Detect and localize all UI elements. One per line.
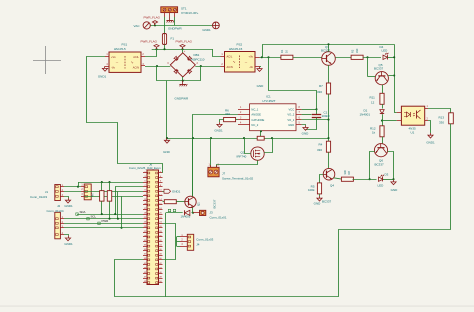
junction VO1 bbox=[327, 119, 329, 121]
pins PS1 bbox=[141, 56, 145, 58]
ground GND under D3 bbox=[393, 180, 395, 182]
diode D1 1N4001 bbox=[380, 110, 384, 114]
junction bridge bottom bbox=[182, 80, 184, 82]
wire U1 top right bbox=[428, 109, 451, 114]
label SDA wire bbox=[77, 214, 143, 216]
svg-text:KBPC110: KBPC110 bbox=[192, 57, 205, 61]
svg-text:1k: 1k bbox=[372, 130, 376, 134]
svg-text:12: 12 bbox=[371, 101, 375, 105]
junction rv1 bbox=[393, 56, 395, 58]
wires J4 pins bbox=[177, 236, 181, 238]
svg-text:GND: GND bbox=[257, 84, 265, 88]
label SCL wire bbox=[64, 218, 143, 220]
svg-text:Conn_02x25_Odd_Even: Conn_02x25_Odd_Even bbox=[129, 166, 161, 170]
svg-text:BC337: BC337 bbox=[213, 199, 217, 208]
wire R8 to D3 bbox=[353, 179, 377, 181]
svg-text:Conn_01x03: Conn_01x03 bbox=[30, 195, 47, 199]
svg-text:100k: 100k bbox=[308, 188, 315, 192]
wire bus to PS1 AC/L bbox=[145, 49, 157, 56]
svg-text:330: 330 bbox=[439, 121, 444, 125]
voltage source VAC bbox=[143, 22, 150, 29]
wire Q2 gate bbox=[245, 138, 251, 153]
svg-text:-Vo: -Vo bbox=[249, 65, 253, 69]
svg-text:330: 330 bbox=[355, 48, 359, 53]
wire D2 left bbox=[166, 212, 183, 214]
svg-text:PWR_FLAG: PWR_FLAG bbox=[141, 39, 158, 43]
led D3 bbox=[379, 177, 384, 181]
svg-text:BC337: BC337 bbox=[321, 49, 331, 53]
power symbol GNDPWR 2 bbox=[182, 81, 184, 84]
svg-text:Conn_01x03: Conn_01x03 bbox=[196, 238, 213, 242]
pins IC1 left bbox=[238, 109, 250, 111]
wire bus to bridge top bbox=[182, 49, 184, 53]
wire PS1 +Vo to J6 bbox=[87, 57, 163, 173]
junction D3 left bbox=[369, 178, 371, 180]
svg-text:∿: ∿ bbox=[131, 61, 134, 65]
wire VO_2 stub bbox=[302, 114, 312, 116]
transistor Q3 BC337 bbox=[322, 52, 336, 66]
connector J2 Conn_01x04 bbox=[55, 212, 61, 239]
junction SDA bbox=[101, 213, 103, 215]
resistor R7 330 bbox=[326, 83, 330, 94]
pins PS2 bbox=[221, 56, 225, 58]
pins of ST1 bbox=[164, 13, 166, 17]
led D4 bbox=[383, 55, 388, 59]
svg-text:J3: J3 bbox=[210, 210, 214, 214]
wire Q1 collector bbox=[192, 138, 194, 196]
resistor R8 330 bbox=[341, 177, 353, 181]
junction on AC wire bbox=[154, 24, 156, 26]
junction rail J7 bbox=[210, 137, 212, 139]
wire PS2 +Vo bbox=[260, 57, 281, 59]
resistor R12 1k bbox=[382, 121, 384, 126]
pins U1 bbox=[397, 112, 402, 114]
svg-text:Conn_01x04: Conn_01x04 bbox=[47, 209, 64, 213]
junction vo2 bbox=[267, 56, 269, 58]
svg-text:NC_1: NC_1 bbox=[251, 107, 258, 111]
svg-text:R7: R7 bbox=[319, 84, 323, 88]
wire C1 to gnd bbox=[306, 117, 317, 129]
wire R4 to Q4 bbox=[328, 152, 330, 168]
svg-text:+Vo: +Vo bbox=[111, 55, 116, 59]
connector J3 Conn_01x01 bbox=[193, 212, 200, 214]
wire D2 net down bbox=[165, 213, 167, 297]
wire to rail bbox=[166, 81, 168, 138]
ground GND1 at R6 bbox=[219, 122, 221, 124]
junction bus 3 bbox=[181, 48, 183, 50]
wire bridge right to PS2 AC/N bbox=[195, 66, 220, 68]
junction ACN right bbox=[200, 65, 202, 67]
junction D1 node bbox=[381, 120, 383, 122]
junction rail left bbox=[166, 137, 168, 139]
wire GND rail bbox=[167, 138, 257, 140]
svg-text:BC337: BC337 bbox=[374, 67, 384, 71]
wire R12 to Q6 base bbox=[382, 137, 384, 144]
svg-text:J4: J4 bbox=[196, 242, 200, 246]
bridge rectifier DB1 KBPC110 bbox=[170, 53, 195, 77]
svg-text:-Vo: -Vo bbox=[111, 66, 115, 70]
svg-text:U1: U1 bbox=[411, 131, 415, 135]
wire J1 pin1 bbox=[64, 186, 81, 188]
wire Q5 collector bbox=[388, 75, 394, 77]
svg-text:VCC: VCC bbox=[289, 107, 295, 111]
svg-text:PWR_FLAG: PWR_FLAG bbox=[176, 39, 193, 43]
svg-text:PWR_FLAG: PWR_FLAG bbox=[144, 16, 161, 20]
svg-text:SCL: SCL bbox=[91, 215, 97, 219]
wire R3 to SDA bbox=[101, 201, 103, 214]
svg-text:R8: R8 bbox=[347, 171, 351, 175]
wire ST1 pin1 to fuse bbox=[164, 17, 166, 34]
svg-text:GND1: GND1 bbox=[98, 75, 107, 79]
wire lower link bbox=[157, 66, 201, 81]
svg-text:IC1: IC1 bbox=[266, 95, 271, 99]
svg-text:GND: GND bbox=[288, 123, 294, 127]
wire to U1 pin1 bbox=[394, 112, 397, 114]
svg-text:+Vo: +Vo bbox=[248, 55, 253, 59]
ground GND under R5 bbox=[319, 196, 321, 198]
wire J1 pin2 bbox=[64, 191, 81, 193]
power flag GND1 at J6 bbox=[163, 191, 165, 193]
bottom window band bbox=[0, 305, 474, 307]
wire stair k4 to SCL bbox=[117, 191, 119, 218]
svg-text:---: --- bbox=[245, 61, 248, 64]
power module PS2 HM-05-15 bbox=[225, 52, 256, 73]
wire PS1 AC/N to bridge left bbox=[145, 66, 170, 68]
power symbol GNDPWR bbox=[169, 17, 171, 20]
wire J5 pin2 row bbox=[84, 191, 143, 193]
wire D1 to node bbox=[382, 114, 384, 120]
svg-text:GND1: GND1 bbox=[64, 204, 73, 208]
svg-text:VO_2: VO_2 bbox=[287, 113, 294, 117]
wire J1 pin3 to GND1 bbox=[64, 197, 69, 199]
svg-text:GNDPWR: GNDPWR bbox=[168, 26, 182, 30]
resistor R3 4k7 bbox=[101, 182, 103, 191]
svg-text:BC337: BC337 bbox=[375, 163, 385, 167]
wire Q4 base to R5 bbox=[320, 175, 324, 184]
svg-text:VAC: VAC bbox=[134, 24, 141, 28]
junction SCL bbox=[108, 218, 110, 220]
resistor R9 4k7 bbox=[109, 182, 111, 191]
svg-text:IRF740: IRF740 bbox=[237, 154, 247, 158]
power flag PWR_FLAG right bbox=[182, 47, 184, 49]
ground GND1 under J1 bbox=[68, 198, 70, 200]
transistor Q5 BC337 bbox=[375, 72, 388, 85]
svg-text:PS1: PS1 bbox=[122, 43, 128, 47]
wire D4 to right vertical bbox=[388, 57, 395, 59]
svg-text:LED: LED bbox=[378, 183, 385, 187]
connector J6 Conn_02x25_Odd_Even bbox=[147, 170, 159, 285]
svg-text:GND1: GND1 bbox=[214, 129, 223, 133]
svg-text:R4: R4 bbox=[319, 142, 323, 146]
junction base Q5 bbox=[366, 56, 368, 58]
junction rail drain bbox=[271, 137, 273, 139]
wire bus to PS2 AC/L bbox=[213, 49, 221, 56]
junction VCC bbox=[315, 108, 317, 110]
svg-text:GNDPWR: GNDPWR bbox=[175, 97, 189, 101]
resistor R10 bbox=[163, 201, 165, 203]
svg-text:AC/N: AC/N bbox=[133, 66, 139, 70]
connector ST1 XY301X-3P bbox=[161, 7, 178, 13]
wire VCC feed bbox=[269, 57, 317, 109]
wire +5V rail bbox=[78, 182, 143, 184]
resistor R13 330 bbox=[449, 113, 454, 124]
junction r9 top bbox=[108, 181, 110, 183]
resistor R1 bbox=[281, 55, 293, 59]
svg-text:GND: GND bbox=[314, 202, 322, 206]
label PWR wire bbox=[64, 223, 143, 225]
optocoupler IC1 LTV-352T bbox=[250, 104, 296, 131]
svg-text:AC/L: AC/L bbox=[227, 55, 233, 59]
junction stair PWR bbox=[120, 227, 122, 229]
inline element on rail bbox=[257, 136, 264, 140]
net anchors bbox=[168, 209, 170, 211]
wire stair k5 to J2 pin3 row bbox=[121, 196, 123, 228]
ground GND at rail left bbox=[166, 138, 168, 140]
wire Q1 emitter bbox=[192, 208, 194, 213]
svg-text:ANODE: ANODE bbox=[251, 113, 261, 117]
ground GND1 at PS1 -Vo bbox=[104, 66, 106, 68]
transistor Q4 BC337 bbox=[323, 168, 335, 180]
wire Q5 emitter bbox=[382, 85, 384, 94]
svg-text:NC_2: NC_2 bbox=[251, 123, 258, 127]
svg-text:330: 330 bbox=[317, 90, 322, 94]
svg-text:Conn_01x01: Conn_01x01 bbox=[210, 215, 227, 219]
wire D3 to gnd node bbox=[383, 179, 394, 181]
wire J2 pin3 row bbox=[64, 227, 143, 229]
wire Q3 to R2 bbox=[335, 57, 351, 59]
svg-text:J1: J1 bbox=[45, 190, 49, 194]
wire R6 to GND1 bbox=[220, 120, 224, 123]
wire fuse to bus bbox=[164, 45, 166, 50]
junction ACN left bbox=[156, 65, 158, 67]
svg-text:330: 330 bbox=[343, 170, 347, 175]
wire to Q5 base bbox=[367, 57, 369, 76]
svg-text:R13: R13 bbox=[439, 116, 445, 120]
wire rail to J7 pin1 bbox=[210, 138, 212, 167]
wire J5 pin3 row bbox=[84, 196, 143, 198]
diode D2 1N4005 bbox=[192, 212, 194, 214]
cursor crosshair bbox=[33, 60, 61, 62]
junction bus 2 bbox=[163, 48, 165, 50]
wire R13 bottom bbox=[450, 124, 452, 128]
svg-text:VO_1: VO_1 bbox=[287, 118, 294, 122]
svg-text:R2: R2 bbox=[351, 49, 355, 53]
resistor R2 330 bbox=[351, 55, 363, 59]
earth symbol GND1 bbox=[213, 22, 220, 29]
svg-text:CATHODE: CATHODE bbox=[251, 118, 264, 122]
wire ANODE bbox=[193, 115, 239, 197]
wire Q6 left down bbox=[370, 152, 375, 180]
power flag PWR_FLAG top bbox=[154, 23, 156, 25]
power flag PWR_FLAG left bbox=[156, 47, 158, 49]
wire VO_1 bbox=[302, 119, 329, 121]
svg-text:XY301X-3P+: XY301X-3P+ bbox=[181, 11, 199, 15]
svg-text:SDA: SDA bbox=[80, 210, 86, 214]
svg-text:GND1: GND1 bbox=[172, 189, 181, 193]
wire Q5 base in bbox=[368, 76, 376, 78]
connector J1 Conn_01x03 bbox=[55, 185, 61, 201]
wire Q6 right down bbox=[388, 152, 394, 180]
svg-text:AC/N: AC/N bbox=[227, 65, 233, 69]
svg-text:ST1: ST1 bbox=[181, 7, 187, 11]
wire U1 pin2 gnd bbox=[428, 121, 431, 134]
junction stair SCL bbox=[117, 218, 119, 220]
transistor Q2 IRF740 bbox=[251, 147, 264, 160]
junction rail anode bbox=[192, 137, 194, 139]
wire +5V drop bbox=[78, 182, 80, 187]
svg-text:F1: F1 bbox=[171, 37, 175, 41]
svg-text:1N4001: 1N4001 bbox=[360, 112, 371, 116]
svg-text:PWR: PWR bbox=[102, 219, 109, 223]
wire VCC bbox=[302, 109, 317, 111]
ground GND1 under U1 bbox=[430, 133, 432, 135]
wire R11 to D1 bbox=[382, 104, 384, 108]
wire R2 to D4 bbox=[363, 57, 381, 59]
svg-text:GND1: GND1 bbox=[426, 141, 435, 145]
screw terminal J7 bbox=[208, 167, 219, 177]
wire R9 to SCL bbox=[109, 201, 111, 219]
wire hook right of J6 bbox=[163, 224, 176, 260]
junction rv2 bbox=[393, 74, 395, 76]
svg-text:Screw_Terminal_01x02: Screw_Terminal_01x02 bbox=[222, 176, 254, 180]
svg-text:GND: GND bbox=[302, 131, 310, 135]
svg-text:100nF: 100nF bbox=[322, 114, 331, 118]
svg-text:AC/L: AC/L bbox=[133, 55, 139, 59]
junction Q3 collector bbox=[327, 43, 329, 45]
svg-text:GND1: GND1 bbox=[202, 28, 211, 32]
ground GND at IC1 bbox=[305, 125, 307, 127]
wire AC bus bbox=[152, 49, 213, 51]
connector J5 Conn_01x03 bbox=[84, 184, 91, 200]
wire R1 to Q3 base bbox=[293, 57, 322, 59]
svg-text:R11: R11 bbox=[370, 95, 376, 99]
svg-text:BC337: BC337 bbox=[322, 199, 332, 203]
svg-text:GND: GND bbox=[391, 188, 399, 192]
junction bus 1 bbox=[155, 48, 157, 50]
wire top rail bbox=[263, 45, 395, 58]
svg-text:HM-05-15: HM-05-15 bbox=[229, 47, 243, 51]
wire ST1 pin3 bbox=[174, 17, 176, 25]
resistor R11 12 bbox=[380, 93, 384, 104]
svg-text:1N4005: 1N4005 bbox=[181, 214, 191, 218]
power module PS1 HM-05-5 bbox=[109, 52, 141, 72]
wire IC1 GND pin bbox=[302, 124, 306, 127]
svg-text:DB1: DB1 bbox=[194, 53, 200, 57]
svg-text:J2: J2 bbox=[57, 204, 61, 208]
wire node to U1 pin2 bbox=[382, 120, 397, 122]
resistor R5 100k bbox=[317, 183, 321, 194]
svg-text:LED: LED bbox=[382, 49, 389, 53]
svg-text:J7: J7 bbox=[222, 171, 226, 175]
svg-text:GND: GND bbox=[163, 150, 171, 154]
wire Q3 emitter bbox=[328, 65, 330, 83]
wire Q4 emitter to resistor bbox=[334, 178, 343, 179]
junction J1 pin1 bbox=[77, 186, 79, 188]
svg-text:HM-05-5: HM-05-5 bbox=[114, 47, 126, 51]
fuse F1 bbox=[162, 34, 166, 45]
ground GND1 under J2 bbox=[68, 236, 70, 238]
ground GND at PS2 -Vo bbox=[259, 66, 261, 68]
junction r3 top bbox=[101, 181, 103, 183]
transistor Q1 BC337 bbox=[185, 196, 196, 207]
junction rail right bbox=[327, 137, 329, 139]
junction vo1 bbox=[261, 56, 263, 58]
svg-text:∿: ∿ bbox=[233, 60, 236, 64]
junction stair SDA bbox=[114, 213, 116, 215]
svg-text:330: 330 bbox=[225, 112, 230, 116]
pins IC1 right bbox=[296, 109, 302, 111]
svg-text:330: 330 bbox=[317, 148, 322, 152]
pin IC1 bottom bbox=[260, 131, 262, 137]
wire R5 to GND bbox=[319, 194, 321, 196]
wire bridge bottom bbox=[182, 77, 184, 81]
wire R7 to rail bbox=[328, 94, 330, 138]
wire Q2 source bbox=[217, 160, 258, 167]
wire Q3 collector bbox=[328, 44, 330, 51]
junction D3 right bbox=[392, 178, 394, 180]
pins J6 bbox=[143, 172, 147, 174]
optocoupler U1 4N35 bbox=[401, 106, 424, 125]
svg-text:R1: R1 bbox=[280, 49, 284, 53]
svg-text:PS2: PS2 bbox=[237, 42, 243, 46]
junction Q1 emitter bbox=[192, 212, 194, 214]
wire R10 to Q1 base bbox=[176, 201, 185, 203]
wire AC top bbox=[151, 25, 213, 27]
transistor Q6 BC337 bbox=[374, 144, 387, 157]
svg-text:Q4: Q4 bbox=[330, 183, 334, 187]
svg-text:D3: D3 bbox=[385, 172, 389, 176]
wire bottom loop bbox=[115, 128, 451, 297]
resistor R4 330 bbox=[328, 138, 330, 141]
capacitor C1 100nF bbox=[316, 109, 318, 115]
svg-text:LTV-352T: LTV-352T bbox=[263, 99, 276, 103]
wire right vertical bbox=[394, 44, 396, 112]
wire Q2 drain bbox=[264, 138, 272, 152]
wire stair k3 to SDA bbox=[116, 187, 144, 215]
svg-text:GND1: GND1 bbox=[64, 242, 73, 246]
connector J4 Conn_01x03 bbox=[187, 234, 193, 250]
junction rail gate bbox=[243, 137, 245, 139]
resistor R6 330 bbox=[236, 119, 239, 121]
svg-text:---: --- bbox=[116, 62, 119, 65]
wire J2 pin4 to GND1 bbox=[64, 235, 69, 236]
svg-text:Q1: Q1 bbox=[197, 202, 201, 206]
